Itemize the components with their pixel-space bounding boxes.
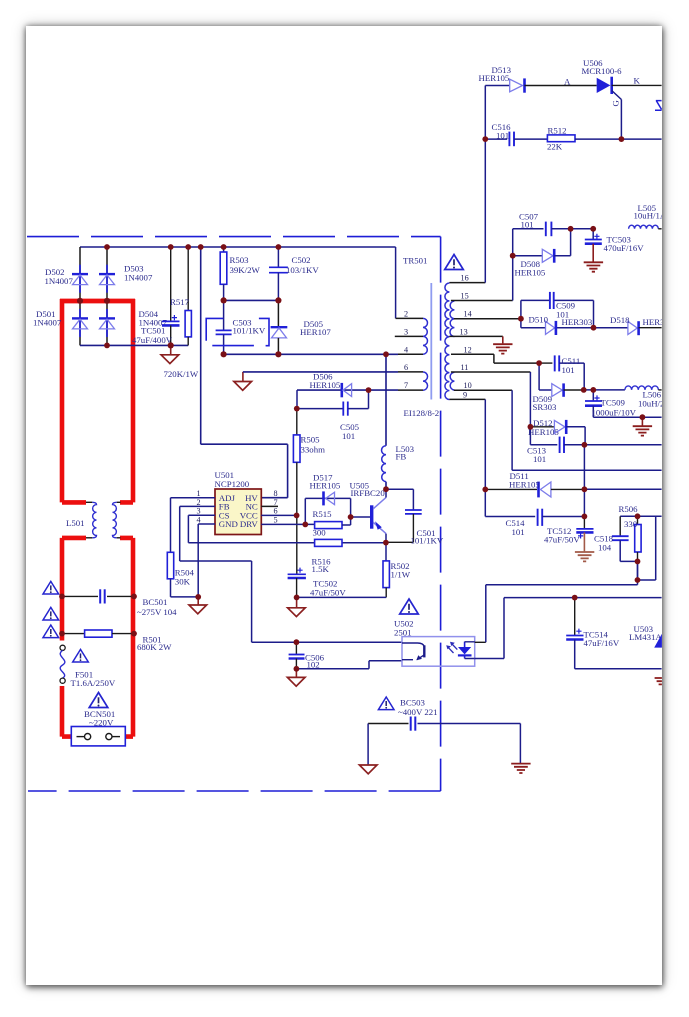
svg-text:680K 2W: 680K 2W [137, 642, 172, 652]
wire D511 row out [584, 488, 661, 490]
U501 pin7 NC stub [261, 505, 278, 507]
U502 LED [458, 642, 475, 659]
bridge right column wire [106, 247, 108, 345]
svg-text:DRV: DRV [240, 519, 259, 529]
wire TR501 pin15 [451, 300, 513, 302]
svg-text:9: 9 [463, 390, 467, 399]
svg-text:BC501: BC501 [143, 597, 168, 607]
U501 pin5 DRV wire [261, 523, 314, 525]
svg-text:1: 1 [197, 489, 201, 498]
svg-text:TC509: TC509 [601, 397, 626, 407]
wire R506 node row [620, 515, 661, 517]
svg-text:101/1KV: 101/1KV [233, 326, 266, 336]
wire TR501 pin13 to ground [449, 335, 502, 337]
svg-text:G: G [611, 100, 621, 107]
svg-text:101: 101 [562, 365, 575, 375]
svg-text:30K: 30K [175, 577, 191, 587]
svg-text:720K/1W: 720K/1W [164, 369, 199, 379]
ground at TC502 [296, 597, 298, 607]
svg-text:HER105: HER105 [479, 73, 510, 83]
wire TR501 pin3 stub [395, 335, 423, 337]
resistor R504 [167, 552, 198, 597]
primary-side dashed boundary top [27, 236, 441, 238]
earth ground at BC503 right [519, 724, 521, 764]
ground at C503 area [242, 372, 244, 382]
warning triangle 2 [43, 607, 59, 620]
resistor R501 [62, 630, 134, 637]
diode D509 [539, 363, 584, 397]
svg-text:1000uF/10V: 1000uF/10V [592, 407, 637, 417]
capacitor TC514 [566, 598, 661, 669]
svg-text:HER107: HER107 [300, 327, 331, 337]
diode D505 [271, 300, 288, 354]
svg-text:HER303: HER303 [562, 317, 593, 327]
diode D513 [510, 78, 525, 92]
svg-text:R506: R506 [619, 504, 639, 514]
warning triangle at BC503 [378, 697, 394, 710]
diode D502 [72, 265, 88, 293]
wire opto LED cathode out [475, 598, 662, 659]
svg-text:1.5K: 1.5K [312, 564, 330, 574]
svg-text:104: 104 [598, 543, 612, 553]
resistor R512 [547, 135, 661, 142]
earth ground at TC503 [592, 244, 594, 262]
svg-text:14: 14 [464, 310, 472, 319]
capacitor C514 [485, 489, 584, 526]
svg-text:2: 2 [197, 498, 201, 507]
svg-text:47uF/50V: 47uF/50V [310, 587, 346, 597]
capacitor C518 [612, 516, 638, 561]
resistor R517 [185, 247, 191, 345]
top DC rail [80, 246, 396, 248]
pin 4 black stub [398, 353, 423, 355]
wire TR501 pin6 to ground [243, 371, 398, 373]
svg-text:101/1KV: 101/1KV [411, 536, 444, 546]
capacitor TC509 [585, 390, 662, 417]
wire TR501 pin14 [454, 318, 521, 320]
U501 pin6 VCC wire [261, 514, 296, 516]
warning triangle at U502 [400, 599, 419, 614]
svg-text:1N4007: 1N4007 [124, 273, 153, 283]
warning triangle at TR501 [445, 255, 464, 270]
svg-text:A: A [564, 77, 571, 87]
earth ground at pin13 [502, 336, 504, 343]
red highlight right vertical (upper) [120, 299, 133, 502]
svg-text:101: 101 [521, 219, 534, 229]
warning triangle at fuse [73, 649, 89, 662]
U501 pin names [219, 493, 259, 529]
fuse F501 [60, 645, 65, 683]
svg-text:3: 3 [197, 507, 201, 516]
capacitor TC502 [288, 568, 306, 598]
svg-text:HER303: HER303 [643, 317, 663, 327]
red highlight AC path top bar [60, 299, 135, 304]
capacitor C501 [386, 489, 422, 542]
svg-text:EI128/8-2: EI128/8-2 [404, 408, 440, 418]
bridge left column wire [79, 247, 81, 345]
diode D517 [305, 491, 350, 524]
capacitor BC501 X-cap [62, 589, 134, 603]
op-amp U501 NCP1200 body [215, 489, 261, 535]
red highlight left vertical (below fuse) [62, 686, 77, 737]
diode D510 [546, 321, 556, 335]
wire TR501 pin12 [451, 354, 539, 363]
capacitor TC503 [585, 229, 602, 244]
transformer TR501 primary winding 6-7 [423, 372, 428, 390]
diode D508 [513, 229, 571, 263]
svg-text:47uF/16V: 47uF/16V [584, 638, 620, 648]
wire R506 bottom node [638, 516, 656, 580]
svg-text:101: 101 [342, 431, 355, 441]
diode D503 [99, 265, 115, 293]
svg-text:~400V 221: ~400V 221 [398, 707, 438, 717]
ground at TC501 [170, 345, 172, 354]
wire pin15 riser [512, 229, 514, 301]
wire pin16 riser to D513 [485, 86, 509, 283]
svg-text:8: 8 [274, 489, 278, 498]
earth ground at TC509 [641, 417, 643, 426]
capacitor C513 [530, 427, 584, 453]
red highlight left vertical (mid) [62, 538, 86, 641]
svg-text:3: 3 [404, 327, 408, 336]
U501 pin2 FB wire [180, 506, 402, 642]
primary-side dashed boundary right [440, 237, 442, 791]
svg-text:300: 300 [313, 527, 327, 537]
capacitor C505 [297, 390, 369, 416]
wire TR501 pin9 [449, 398, 485, 400]
wire R503/C502 bottom [224, 299, 279, 301]
diode D501 [72, 309, 88, 337]
transformer TR501 secondary outer winding [445, 283, 449, 400]
transformer core [430, 283, 432, 400]
diode D506 [342, 383, 352, 397]
wire TR501 pin11 [451, 371, 531, 373]
transformer TR501 secondary inner winding 15-13 [450, 301, 454, 337]
svg-text:10uH/2A: 10uH/2A [638, 398, 662, 408]
svg-text:T1.6A/250V: T1.6A/250V [71, 678, 116, 688]
svg-text:MCR100-6: MCR100-6 [582, 66, 623, 76]
svg-text:5: 5 [274, 516, 278, 525]
capacitor C506 [289, 642, 305, 669]
svg-text:R512: R512 [548, 125, 567, 135]
transformer TR501 primary winding 2-4 [423, 318, 427, 354]
svg-text:K: K [634, 76, 641, 86]
U502 phototransistor [402, 643, 424, 660]
resistor R502 [383, 543, 389, 598]
resistor R515 [315, 517, 351, 529]
svg-text:HER105: HER105 [310, 380, 341, 390]
svg-text:470uF/16V: 470uF/16V [604, 243, 645, 253]
capacitor TC512 [576, 516, 593, 538]
U501 pin3 CS wire [188, 515, 314, 543]
svg-text:LM431A: LM431A [629, 632, 662, 642]
shunt regulator U503 partial symbol [654, 634, 662, 648]
inductor L501 common-mode choke [86, 502, 121, 538]
svg-text:4: 4 [404, 345, 408, 354]
svg-text:FB: FB [396, 452, 407, 462]
svg-text:R517: R517 [170, 297, 190, 307]
svg-text:330: 330 [624, 519, 638, 529]
bridge bottom rail [80, 344, 188, 346]
svg-text:HER105: HER105 [509, 479, 540, 489]
wire TR501 pin16 [449, 282, 485, 284]
svg-text:101: 101 [512, 527, 525, 537]
svg-text:D510: D510 [529, 315, 549, 325]
svg-text:11: 11 [461, 363, 469, 372]
svg-text:39K/2W: 39K/2W [230, 265, 261, 275]
capacitor C503 [216, 300, 232, 354]
warning triangle 3 [43, 625, 59, 638]
svg-text:13: 13 [460, 327, 468, 336]
svg-text:22K: 22K [547, 142, 563, 152]
svg-text:R515: R515 [313, 509, 333, 519]
inductor L505 [629, 225, 662, 229]
partial earth ground at page edge [655, 678, 662, 684]
capacitor BC503 Y-cap [368, 717, 520, 731]
inductor L506 [625, 386, 662, 390]
wire TR501 pin7 row [297, 389, 398, 391]
svg-text:10: 10 [464, 381, 472, 390]
svg-text:GND: GND [219, 519, 238, 529]
svg-text:6: 6 [404, 363, 408, 372]
red highlight left vertical (upper) [62, 299, 86, 502]
connector BCN501 [71, 727, 125, 746]
wire TC502/R502 gnd row [297, 596, 387, 598]
pin 6 black stub [398, 371, 423, 373]
wire U506 cathode out [612, 84, 662, 86]
transformer TR501 secondary inner winding 11-10 [450, 372, 454, 390]
thyristor U506 MCR100-6 [597, 77, 622, 139]
U502 light arrows [446, 642, 457, 653]
wire TR501 pin2 [395, 247, 397, 318]
diode D511 [485, 482, 584, 498]
wire D510 out to D518 [594, 327, 628, 329]
pin 7 black stub [398, 389, 423, 391]
ground at C506 [295, 669, 297, 678]
primary-side dashed boundary bottom [28, 790, 441, 792]
wire D513 to U506 [525, 85, 597, 87]
transistor U505 [372, 489, 386, 542]
diode D512 [530, 420, 585, 445]
wire DRV to base [351, 516, 370, 518]
svg-text:4: 4 [197, 516, 201, 525]
svg-text:C502: C502 [292, 255, 311, 265]
svg-text:101: 101 [533, 454, 546, 464]
U501 pin4 GND wire [198, 524, 215, 597]
svg-text:7: 7 [404, 381, 408, 390]
resistor R506 [635, 516, 641, 561]
svg-text:HER105: HER105 [515, 267, 546, 277]
capacitor C502 [269, 247, 288, 300]
wire C506 to opto diode [296, 661, 402, 669]
svg-text:2: 2 [404, 309, 408, 318]
inductor L503 [385, 354, 387, 489]
svg-text:R503: R503 [230, 255, 250, 265]
svg-text:1N4007: 1N4007 [33, 317, 62, 327]
resistor R503 [220, 247, 227, 300]
wire D509 out [584, 389, 625, 391]
warning triangle 1 [43, 581, 59, 594]
wire R516 to CS node [342, 542, 386, 544]
wire opto LED anode to sense [486, 561, 638, 642]
vertical C513-D511-C514 link [583, 445, 585, 517]
warning triangle at BCN501 [89, 693, 108, 708]
svg-text:15: 15 [461, 292, 469, 301]
capacitor C509 [550, 292, 554, 309]
red highlight right vertical (lower) [120, 538, 133, 737]
diode D504 [99, 309, 115, 337]
svg-text:47uF/50V: 47uF/50V [544, 534, 580, 544]
wire HV node to TR501 pin4 [224, 353, 398, 355]
resistor R505 [293, 409, 300, 575]
svg-text:101: 101 [496, 130, 509, 140]
earth ground at TC512 [583, 532, 585, 551]
wire HV feed to U501 pin8 [201, 247, 288, 498]
C503 bracket decoration [206, 318, 269, 345]
C509/D510 loop [521, 300, 594, 327]
svg-text:L501: L501 [66, 518, 85, 528]
svg-text:6: 6 [274, 507, 278, 516]
optocoupler U502 body [402, 637, 475, 667]
wire TR501 pin10 [454, 389, 512, 391]
wire pin9 riser [484, 399, 486, 489]
partial diode at page edge (top) [655, 101, 662, 111]
svg-text:33ohm: 33ohm [301, 444, 326, 454]
ground at U501 GND [197, 597, 199, 605]
svg-text:1/1W: 1/1W [391, 569, 411, 579]
wire opto collector out [475, 641, 486, 643]
wire C513 row out [584, 444, 661, 446]
diode D518 [628, 321, 662, 335]
resistor R516 [315, 539, 342, 546]
svg-text:12: 12 [464, 345, 472, 354]
wire pin10 rail out [512, 390, 662, 470]
U501 pin1 wire to R504 [171, 498, 216, 553]
svg-text:16: 16 [461, 274, 469, 283]
svg-text:103/1KV: 103/1KV [286, 265, 319, 275]
ground at BC503 left [367, 724, 369, 766]
svg-text:HER105: HER105 [310, 481, 341, 491]
capacitor C511 [539, 355, 584, 390]
svg-text:~275V 104: ~275V 104 [137, 607, 177, 617]
svg-text:NCP1200: NCP1200 [215, 479, 250, 489]
svg-text:10uH/1A: 10uH/1A [634, 211, 663, 221]
svg-text:IRFBC20: IRFBC20 [351, 488, 386, 498]
capacitor TC501 [162, 247, 180, 345]
svg-text:1N4007: 1N4007 [45, 276, 74, 286]
svg-text:SR303: SR303 [533, 402, 558, 412]
svg-text:TR501: TR501 [403, 255, 427, 265]
svg-text:R505: R505 [301, 434, 321, 444]
svg-text:D518: D518 [610, 315, 630, 325]
svg-text:47uF/400V: 47uF/400V [132, 335, 173, 345]
capacitor C516 [485, 132, 547, 147]
capacitor C507 [513, 222, 594, 237]
